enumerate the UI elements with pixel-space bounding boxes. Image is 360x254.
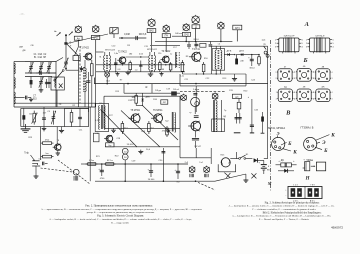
svg-text:4: 4	[332, 72, 333, 74]
test box KT3	[162, 34, 170, 38]
diode package	[276, 161, 297, 167]
wire top of antenna box	[25, 61, 56, 63]
capacitor u1	[187, 41, 191, 49]
test box KT2	[147, 29, 156, 33]
wire tuning stem	[65, 35, 67, 58]
svg-text:Д9 В: Д9 В	[239, 51, 244, 53]
test point TP3	[163, 24, 170, 32]
transistor T4	[189, 52, 201, 62]
wire osc rail	[78, 56, 80, 107]
IF transformer L5 core	[106, 55, 109, 71]
ground CL2	[42, 127, 47, 131]
detector transformer secondary	[221, 46, 222, 74]
battery holder H	[285, 185, 322, 203]
battery B1	[258, 160, 266, 174]
test point TP5	[192, 15, 200, 24]
box u2	[200, 43, 206, 47]
wire y36 seg	[172, 33, 186, 36]
driver transformer core	[100, 105, 103, 129]
svg-text:Fig. 3. Schematic Electric Cir: Fig. 3. Schematic Electric Circuit Diagr…	[97, 214, 144, 217]
label MP41	[268, 126, 285, 130]
resistor R21	[86, 160, 98, 166]
wire y38	[119, 37, 146, 39]
label LU arrow	[263, 44, 266, 50]
transistor T5	[129, 114, 140, 123]
ground battery	[243, 174, 248, 182]
coil L2	[14, 78, 15, 89]
ground T8	[56, 151, 60, 155]
svg-text:1 2 3: 1 2 3	[293, 185, 297, 187]
trimmer resistor R5	[32, 111, 38, 125]
wire IF mid rail	[96, 64, 185, 65]
svg-text:51 C4А 6П: 51 C4А 6П	[34, 56, 47, 59]
caption en title	[97, 214, 144, 217]
svg-text:Б: Б	[323, 148, 328, 154]
output transformer core	[171, 112, 174, 132]
test box KT4	[182, 32, 190, 36]
wire plate	[234, 132, 241, 134]
label C5 bracket	[70, 42, 72, 47]
wire TP6 down	[220, 30, 222, 42]
svg-text:Э: Э	[277, 131, 280, 136]
capacitor C13	[139, 61, 142, 72]
ground detector	[232, 74, 237, 81]
svg-text:З-Й ПЧ-Ф: З-Й ПЧ-Ф	[315, 34, 325, 37]
capacitor u3	[209, 41, 213, 46]
socket footprint 4D	[276, 87, 295, 102]
resistor R23	[41, 139, 54, 144]
svg-text:ВЧ2: ВЧ2	[149, 31, 154, 33]
wire det bottom	[182, 73, 246, 74]
resistor RL4	[70, 110, 73, 126]
test box gr	[106, 143, 114, 147]
svg-text:Т6 МП41: Т6 МП41	[153, 110, 163, 112]
resistor R11	[180, 60, 184, 78]
capacitor C left edge	[86, 72, 90, 112]
resistor R24	[41, 153, 54, 158]
detector transformer core	[217, 50, 220, 69]
dark component	[171, 91, 177, 95]
capacitor arrow	[311, 165, 316, 167]
svg-text:В: В	[285, 110, 291, 117]
svg-text:340 вж: 340 вж	[175, 33, 182, 35]
coil L3	[14, 92, 15, 104]
cross marks	[251, 173, 256, 178]
pin letter E2	[316, 140, 326, 146]
wire TP4 down	[185, 36, 187, 41]
svg-text:2: 2	[295, 78, 296, 80]
svg-text:4БК0972: 4БК0972	[331, 226, 343, 230]
wire trans right	[221, 100, 223, 132]
transistor T6	[151, 114, 162, 123]
wire 164 left tail	[81, 163, 85, 165]
band switch box	[51, 77, 64, 90]
detector box	[212, 46, 268, 74]
wire out stage	[105, 143, 180, 151]
label driver	[95, 120, 100, 135]
wire bottom links	[215, 152, 246, 181]
svg-text:1: 1	[295, 72, 296, 74]
svg-text:3: 3	[275, 47, 276, 49]
wire osc links	[56, 44, 79, 70]
variable capacitor C9	[64, 58, 69, 71]
capacitor C42 el	[175, 164, 181, 184]
wire box right link	[44, 107, 89, 127]
pin letter K1	[282, 149, 297, 156]
labels top left	[19, 45, 34, 52]
capacitor C top	[136, 36, 138, 40]
transistor T4 label	[192, 49, 200, 51]
svg-text:ФП1П-022: ФП1П-022	[147, 48, 158, 51]
tall transformer core	[213, 100, 216, 132]
svg-text:Т5 МП41: Т5 МП41	[130, 110, 140, 112]
filter box	[161, 100, 168, 104]
svg-text:2: 2	[295, 98, 296, 100]
lower box rails	[21, 108, 89, 126]
label 500mk	[307, 160, 314, 162]
jack Gn sockets	[264, 51, 269, 57]
label battery	[267, 166, 270, 172]
test point TP6	[218, 21, 225, 29]
svg-text:Д9 В: Д9 В	[227, 51, 232, 53]
resistor R15	[131, 93, 137, 105]
resistor R12	[202, 62, 205, 74]
wire switch	[230, 158, 238, 160]
diag wire 2	[121, 111, 160, 148]
ground under C6	[39, 88, 44, 92]
ground IF2	[160, 72, 164, 76]
diag wire 3	[142, 105, 178, 140]
band switch lever	[54, 70, 64, 82]
label M	[267, 181, 272, 186]
document number	[331, 226, 343, 230]
IF transformer L6 primary	[149, 52, 150, 72]
trimmer capacitor C6	[39, 77, 44, 89]
socket footprint 4E	[295, 87, 314, 102]
ground out2	[166, 128, 171, 132]
wire det link	[234, 54, 259, 55]
IF transformer L5 secondary	[109, 52, 110, 72]
misc labels	[28, 45, 258, 164]
svg-text:АПЧ: АПЧ	[235, 27, 240, 30]
IF can footprint B2	[306, 34, 335, 53]
ground CL3	[59, 127, 64, 133]
svg-text:Т1 П422: Т1 П422	[80, 48, 90, 50]
label A	[304, 21, 309, 28]
capacitor CL3	[51, 111, 56, 125]
caption de title	[263, 211, 322, 214]
svg-text:390 6,8: 390 6,8	[139, 34, 147, 36]
test point TP8	[204, 166, 210, 178]
caption en line2	[49, 218, 192, 221]
svg-text:6: 6	[332, 40, 333, 42]
svg-text:К: К	[292, 150, 297, 156]
pin letter B1	[281, 141, 292, 147]
wire mid verticals	[124, 84, 152, 106]
label D9	[281, 160, 285, 162]
wire bottom rail antenna 2	[14, 102, 96, 104]
svg-text:- 28 -: - 28 -	[19, 12, 25, 16]
transistor T4b	[104, 135, 113, 142]
svg-text:ВУ 1кг: ВУ 1кг	[107, 160, 113, 162]
capacitor C38	[162, 148, 166, 156]
label L4	[218, 44, 221, 46]
pin letter B2	[315, 147, 328, 154]
ground out1	[111, 128, 116, 132]
wire IF bottom rail	[96, 71, 185, 72]
svg-text:6,8: 6,8	[118, 69, 121, 71]
test point TP2	[148, 18, 155, 26]
dashed link1	[41, 168, 73, 172]
capacitor C4	[36, 71, 56, 75]
svg-text:2: 2	[306, 43, 307, 45]
capacitor C32	[192, 131, 199, 148]
wire rail y164	[85, 163, 188, 165]
test box APCH	[233, 25, 242, 30]
tall transformer winding	[216, 98, 217, 132]
resistor R19	[162, 126, 169, 137]
label 390	[139, 34, 147, 36]
svg-text:ФП1П-023: ФП1П-023	[105, 48, 116, 51]
svg-text:2: 2	[313, 98, 314, 100]
svg-text:68: 68	[162, 69, 164, 71]
ground thick left	[21, 124, 31, 133]
svg-text:ГТ309А,/ Б: ГТ309А,/ Б	[301, 126, 314, 130]
trimmer capacitor C1	[29, 62, 34, 73]
caption fr title	[265, 201, 320, 204]
svg-text:В 2кк: В 2кк	[89, 160, 94, 162]
wire jack links	[125, 156, 163, 181]
svg-text:1: 1	[276, 92, 277, 94]
wire mid rail	[25, 72, 56, 74]
capacitor package	[303, 160, 310, 171]
label B	[302, 57, 307, 64]
IF transformer L6 secondary	[154, 52, 155, 72]
test box KT0	[74, 36, 82, 40]
driver transformer w1	[99, 106, 100, 130]
diode symbol	[278, 169, 294, 173]
volume pot box	[218, 164, 235, 172]
node dot 2	[65, 68, 67, 70]
ground IF big	[148, 72, 153, 76]
wire APCH down	[236, 30, 238, 42]
svg-text:2: 2	[275, 78, 276, 80]
IF transformer L5 primary	[104, 52, 105, 72]
detector transformer primary	[215, 46, 216, 74]
transistor T6 label	[153, 110, 163, 112]
svg-text:С1 С3А С2: С1 С3А С2	[34, 53, 47, 56]
capacitor C35	[235, 113, 242, 124]
capacitor C31	[189, 86, 198, 117]
svg-text:3: 3	[332, 78, 333, 80]
wire row2 top	[25, 76, 52, 78]
node dot top	[65, 34, 67, 36]
svg-text:3: 3	[332, 98, 333, 100]
test box KT5	[192, 25, 200, 29]
transistor T1	[83, 53, 92, 60]
svg-text:Т4 П41: Т4 П41	[192, 49, 200, 51]
arrow gang	[69, 32, 73, 36]
wire rail y93	[124, 88, 180, 93]
trimmer capacitor C3	[47, 62, 52, 73]
svg-text:1: 1	[275, 40, 276, 42]
svg-text:6: 6	[302, 40, 303, 42]
capacitor C12	[114, 58, 117, 72]
trimmer capacitor C2	[39, 62, 44, 73]
caption ru line3	[87, 211, 155, 214]
svg-text:3: 3	[306, 47, 307, 49]
pin letter K2	[315, 133, 335, 141]
svg-text:АМ: АМ	[19, 45, 22, 48]
page header marks	[19, 12, 25, 16]
capacitor CL2	[42, 108, 46, 126]
phone jack	[32, 158, 42, 166]
svg-text:ПЧ: ПЧ	[165, 36, 169, 38]
svg-text:0,048: 0,048	[124, 34, 130, 36]
capacitor C40 el	[98, 164, 105, 180]
resistor R18	[148, 121, 155, 134]
magnetic antenna coil L1	[14, 62, 25, 74]
capacitor C34	[248, 97, 254, 133]
wire bottom rail antenna	[14, 106, 96, 108]
test box KT1	[91, 35, 99, 39]
ground jack	[34, 166, 39, 178]
switch block P2K	[110, 28, 118, 34]
label 8D	[223, 116, 226, 118]
svg-text:7 8 9: 7 8 9	[310, 185, 314, 187]
capacitor C6A	[45, 79, 48, 88]
separator dash-dot	[270, 40, 272, 192]
svg-text:ЗФ 547: ЗФ 547	[194, 145, 202, 148]
test point G1	[181, 94, 187, 101]
caption ru title	[85, 204, 153, 207]
junction blob	[64, 42, 67, 45]
capacitor C23 el	[248, 55, 255, 70]
transistor T3 label	[161, 51, 171, 53]
svg-text:5: 5	[332, 43, 333, 45]
capacitor C8	[47, 77, 50, 89]
label mkv	[262, 40, 266, 42]
capacitor C5 dark	[30, 77, 33, 89]
test point G2	[212, 92, 218, 99]
svg-text:2: 2	[276, 98, 277, 100]
resistor R26	[237, 99, 241, 113]
oscillator coil Lb	[85, 60, 86, 107]
capacitor dark det	[235, 55, 238, 65]
ground mid	[126, 71, 131, 75]
wire left down	[89, 107, 91, 181]
capacitor C7	[14, 96, 37, 101]
wire det box bottom	[180, 74, 246, 86]
switch contact	[239, 155, 253, 159]
svg-text:2: 2	[313, 78, 314, 80]
test point TP7	[189, 166, 195, 178]
AGC dash line	[180, 88, 225, 91]
diag wire 1	[101, 110, 138, 148]
svg-text:E — Drossel und Spulen; F — Ta: E — Drossel und Spulen; F — Tasten; G — …	[259, 218, 309, 221]
wire TP1 down	[95, 40, 97, 52]
svg-text:А: А	[304, 21, 309, 28]
label C1-C4 row	[34, 53, 47, 59]
capacitor CL5	[78, 108, 82, 126]
dashed dial cord	[79, 46, 81, 103]
svg-text:2: 2	[275, 43, 276, 45]
svg-text:1мг: 1мг	[45, 153, 49, 155]
svg-text:R — range switch: R — range switch	[111, 221, 129, 224]
capacitor dark right	[261, 117, 264, 122]
svg-text:К: К	[330, 133, 335, 139]
ground IF1	[116, 72, 120, 76]
svg-text:Д9Б: Д9Б	[146, 96, 151, 98]
jack circles ZCH	[122, 148, 128, 160]
socket footprint 4B	[295, 66, 314, 81]
caption ru line2	[41, 208, 202, 211]
resistor R1	[91, 60, 94, 107]
capacitor osc	[80, 66, 83, 72]
test point TP4	[183, 23, 190, 31]
transistor T7	[188, 121, 200, 131]
transistor T1 label	[80, 48, 90, 50]
caption de line2	[232, 215, 331, 218]
wire v2625	[261, 112, 265, 133]
svg-text:300,0: 300,0	[249, 68, 255, 70]
svg-text:ВЧ1: ВЧ1	[93, 38, 98, 40]
capacitor can	[316, 162, 325, 171]
label 3F547	[194, 145, 202, 148]
ground bar right	[250, 132, 254, 134]
oscillator coil core	[83, 67, 86, 92]
svg-text:1: 1	[313, 92, 314, 94]
resistor R14	[258, 54, 261, 66]
label Tlf	[24, 152, 35, 161]
oscillator coil La	[85, 68, 86, 78]
dial lamp Ln1	[105, 72, 110, 77]
svg-text:ЗФ 430: ЗФ 430	[127, 143, 135, 146]
resistor R22	[104, 160, 116, 166]
resistor R17	[121, 121, 128, 134]
transistor T5 label	[130, 110, 140, 112]
wire switch down	[56, 90, 58, 107]
transistor T3	[161, 56, 170, 63]
switch lever	[224, 173, 230, 178]
test point TP1	[92, 25, 99, 33]
svg-text:ЗФ об: ЗФ об	[173, 88, 180, 91]
svg-text:1: 1	[313, 72, 314, 74]
diode D1	[224, 51, 234, 56]
transistor view 2	[304, 137, 317, 150]
capacitor C41 el	[148, 164, 156, 181]
IF transformer L6 core	[151, 55, 154, 71]
svg-text:1: 1	[295, 92, 296, 94]
test box din	[232, 94, 241, 98]
svg-text:З-Й ПЧ-ОР: З-Й ПЧ-ОР	[284, 34, 295, 37]
resistor R13 label	[240, 60, 244, 62]
svg-text:ЗФ дв: ЗФ дв	[155, 89, 162, 92]
driver transformer w2	[104, 106, 105, 130]
label if values2	[118, 69, 164, 71]
svg-text:5,6к: 5,6к	[114, 53, 118, 55]
svg-text:МП41, МП41А: МП41, МП41А	[268, 126, 285, 130]
svg-text:1,0: 1,0	[135, 69, 138, 71]
transistor view 1	[272, 135, 285, 150]
wire TP0 down	[75, 40, 79, 55]
caption en line3	[111, 221, 129, 224]
label N	[305, 177, 311, 182]
wire TP3 down	[165, 38, 167, 50]
wire jack verticals	[41, 127, 58, 160]
transformer lower box	[212, 119, 225, 131]
wire IF top	[96, 51, 104, 53]
